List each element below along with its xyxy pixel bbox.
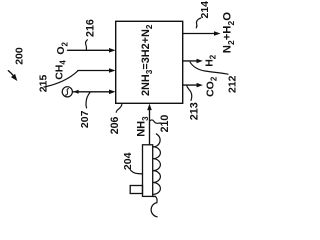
coil bumps xyxy=(153,147,161,195)
arrowhead heater into box xyxy=(109,90,116,95)
wire H2 output xyxy=(183,60,198,62)
coil bottom tail xyxy=(151,196,157,216)
wire heater line xyxy=(73,91,110,93)
svg-text:210: 210 xyxy=(159,115,171,133)
svg-text:214: 214 xyxy=(199,1,211,19)
wire N2+H2O output xyxy=(183,33,215,35)
wire CO2 output xyxy=(183,84,198,86)
svg-text:2NH3=3H2+N2: 2NH3=3H2+N2 xyxy=(140,24,154,96)
leader 213 squiggle xyxy=(187,86,192,101)
heater circle 215 xyxy=(62,87,72,97)
wire NH3 feed xyxy=(149,109,151,145)
svg-text:200: 200 xyxy=(14,47,26,65)
leader 216 squiggle xyxy=(86,40,88,50)
arrowhead heater into circle xyxy=(73,90,78,94)
leader 215 curve xyxy=(44,71,78,87)
tank 204 body xyxy=(143,145,153,197)
tank bottom lip xyxy=(153,195,156,197)
arrowhead CH4 into box xyxy=(109,68,116,73)
reactor box 206 xyxy=(116,21,183,103)
wire O2 input xyxy=(68,49,111,51)
leader 200 arrow line xyxy=(8,71,13,76)
tank nozzle stub xyxy=(130,186,142,194)
svg-text:204: 204 xyxy=(122,152,134,170)
leader 210 squiggle xyxy=(150,120,161,123)
arrowhead N2+H2O xyxy=(214,31,221,36)
svg-text:206: 206 xyxy=(109,117,121,135)
svg-text:216: 216 xyxy=(85,19,97,37)
leader 204 squiggle xyxy=(131,170,143,174)
wire CH4 input xyxy=(78,70,110,72)
arrowhead 200 xyxy=(11,74,17,81)
leader 212 curve xyxy=(190,62,228,74)
arrowhead H2 xyxy=(197,59,203,64)
coil top hook xyxy=(153,134,160,147)
svg-text:207: 207 xyxy=(79,110,91,128)
svg-text:212: 212 xyxy=(227,75,239,93)
leader 214 squiggle xyxy=(196,18,201,28)
heater tilde xyxy=(65,89,68,96)
svg-text:215: 215 xyxy=(37,75,49,93)
leader 206 squiggle xyxy=(116,104,122,112)
svg-text:213: 213 xyxy=(188,102,200,120)
arrowhead NH3 up into box xyxy=(147,104,152,111)
leader 207 squiggle xyxy=(86,92,90,108)
arrowhead O2 into box xyxy=(109,48,116,53)
arrowhead CO2 xyxy=(197,83,203,88)
